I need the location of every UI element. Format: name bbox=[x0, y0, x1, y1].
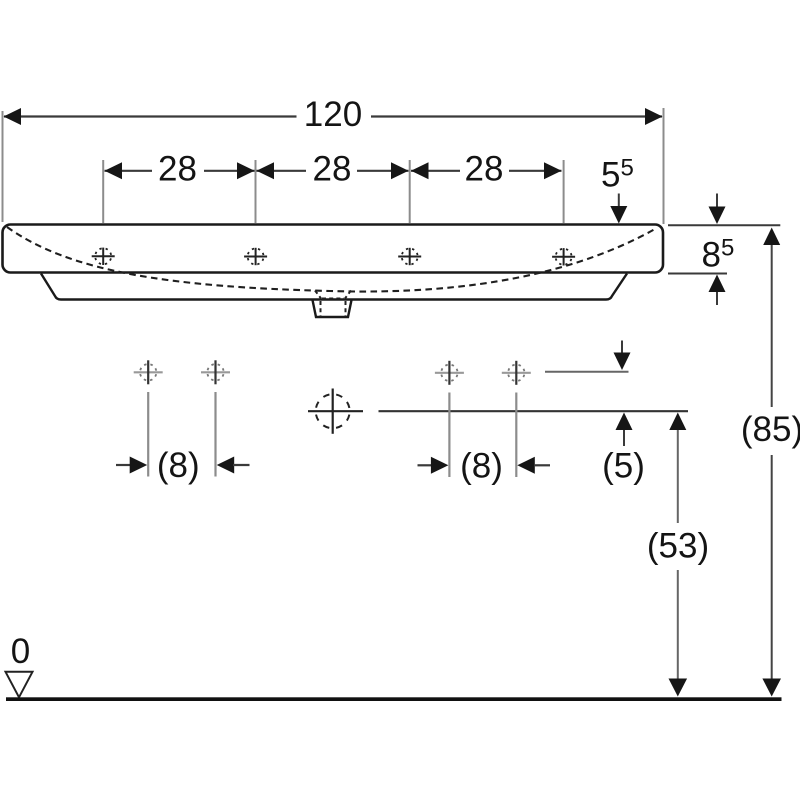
dimension 120 arrowhead left bbox=[4, 108, 22, 125]
basin top extension line right bbox=[668, 224, 780, 226]
drain dashed internals bbox=[320, 301, 322, 317]
washbasin lower body bbox=[41, 274, 627, 300]
dimension 28 extension line 3 bbox=[409, 160, 411, 223]
dimension 5 arrow up bbox=[616, 413, 633, 431]
dimension 53 line lower bbox=[677, 570, 679, 680]
dimension 8-5 arrow up below bbox=[709, 275, 726, 293]
basin bottom extension line right bbox=[668, 273, 727, 275]
dimension 28 second arrowheads bbox=[257, 162, 275, 179]
floor line bbox=[6, 697, 782, 701]
dimension 85 line upper bbox=[771, 245, 773, 407]
washbasin rim band bbox=[3, 225, 664, 273]
dimension 85 arrow up bbox=[763, 228, 780, 246]
dimension 120 line left segment bbox=[4, 115, 297, 117]
svg-text:(8): (8) bbox=[460, 446, 503, 485]
svg-text:28: 28 bbox=[465, 150, 504, 189]
arrow down to tap level line bbox=[621, 341, 623, 354]
tap hole mark 3 on rim bbox=[398, 248, 421, 265]
dimension 28 extension line 2 bbox=[255, 160, 257, 223]
dimension 85 arrow down bbox=[762, 679, 781, 697]
dimension 8 right arrows bbox=[418, 464, 434, 466]
dimension 28 first arrowheads bbox=[105, 162, 123, 179]
svg-text:0: 0 bbox=[11, 632, 30, 671]
dimension 28 third line segments bbox=[411, 170, 460, 172]
datum triangle bbox=[6, 672, 33, 698]
washbasin inner bowl dashed curve bbox=[7, 227, 655, 292]
dimension 28 extension line 1 bbox=[102, 160, 104, 223]
dimension 28 second line segments bbox=[257, 170, 307, 172]
dimension 28 first line segments bbox=[105, 170, 153, 172]
tap level reference line bbox=[545, 371, 629, 373]
wall fixing mark 4 bbox=[502, 361, 531, 385]
wall fixing mark 1 bbox=[134, 360, 163, 384]
dimension 8 left arrows bbox=[116, 464, 132, 466]
drain outlet bbox=[313, 300, 352, 317]
svg-text:28: 28 bbox=[158, 150, 197, 189]
dimension 120 arrowhead right bbox=[645, 108, 663, 125]
dimension 85 line lower bbox=[771, 455, 773, 680]
tap hole mark 2 on rim bbox=[244, 248, 267, 265]
dimension 8 right extension lines bbox=[448, 393, 450, 478]
dimension 53 line upper bbox=[677, 430, 679, 523]
svg-text:(85): (85) bbox=[741, 410, 800, 449]
dimension 53 arrow up bbox=[669, 413, 686, 431]
mid reference line bbox=[379, 410, 689, 412]
dimension 53 arrow down bbox=[669, 679, 688, 697]
dimension 5-5 leader arrow down bbox=[618, 194, 620, 209]
dimension 28 extension line 4 bbox=[563, 160, 565, 223]
svg-text:(53): (53) bbox=[647, 527, 709, 566]
dimension 28 third arrowheads bbox=[411, 162, 429, 179]
svg-text:55: 55 bbox=[601, 155, 634, 195]
dimension 120 line right segment bbox=[371, 115, 662, 117]
dimension 8-5 arrow down above bbox=[716, 194, 718, 208]
dimension 120 extension line right bbox=[663, 108, 665, 224]
svg-text:85: 85 bbox=[702, 235, 735, 275]
dimension 120 extension line left bbox=[2, 111, 4, 222]
wall fixing mark 2 bbox=[201, 360, 230, 384]
wall fixing mark 3 bbox=[435, 361, 464, 385]
svg-text:120: 120 bbox=[304, 95, 362, 134]
tap hole mark 1 on rim bbox=[92, 248, 115, 265]
svg-text:28: 28 bbox=[313, 150, 352, 189]
dimension 8 left extension lines bbox=[147, 392, 149, 477]
svg-text:(8): (8) bbox=[157, 446, 200, 485]
svg-text:(5): (5) bbox=[602, 446, 645, 485]
tap hole mark 4 on rim bbox=[552, 248, 575, 265]
centre drain mark bbox=[308, 389, 363, 434]
